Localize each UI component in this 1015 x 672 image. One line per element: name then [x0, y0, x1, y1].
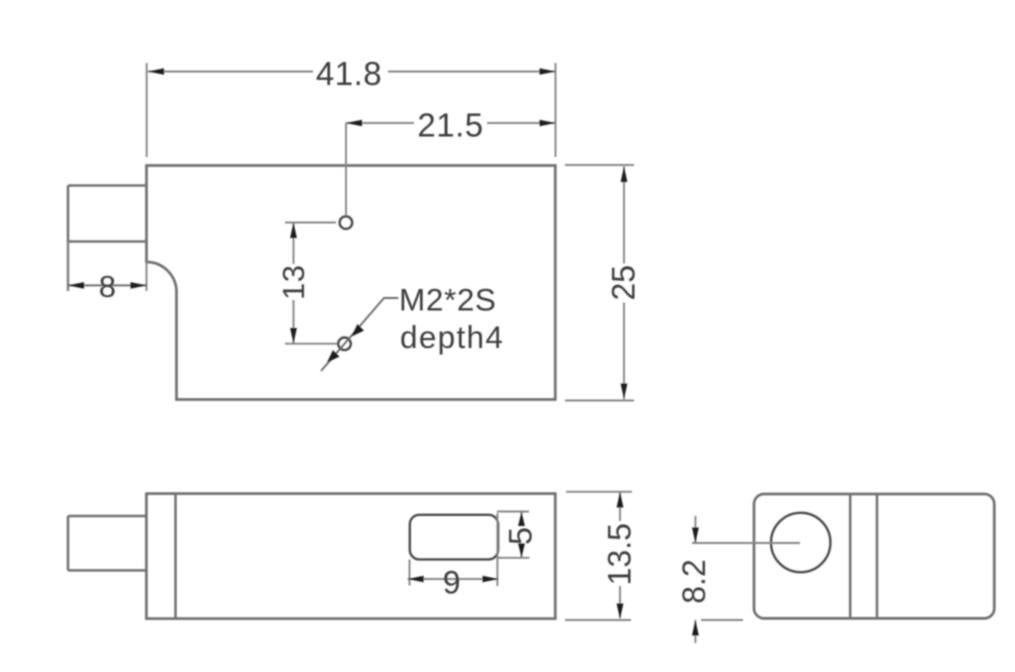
dimension 21.5 arrow left — [346, 120, 362, 127]
dimension 13.5 line — [619, 492, 621, 618]
dimension 13.5 ticks — [565, 492, 632, 620]
dimension 25 ticks — [565, 165, 634, 401]
dimension 25 line — [623, 167, 625, 400]
dimension 8 arrow left — [68, 282, 84, 289]
svg-text:41.8: 41.8 — [316, 55, 382, 92]
svg-text:8: 8 — [99, 269, 116, 304]
dimension 41.8 extension lines — [147, 63, 556, 157]
front view inner edge line — [174, 494, 177, 619]
svg-text:13.5: 13.5 — [602, 523, 638, 585]
dimension 8.2 leader to circle center — [692, 542, 800, 544]
hole H2 M2 tapped — [338, 338, 351, 351]
dimension 5 arrow up — [518, 512, 525, 526]
side view cable hole circle — [771, 513, 830, 572]
dimension 8.2 lower arrow tail — [694, 620, 696, 643]
front view USB opening — [410, 515, 498, 560]
dimension 25 arrow up — [621, 167, 628, 183]
svg-text:5: 5 — [503, 527, 539, 545]
dimension 13 line — [293, 223, 295, 344]
leader line M2 — [321, 298, 398, 371]
svg-text:13: 13 — [276, 265, 311, 300]
dimension 8.2 arrow down — [692, 528, 699, 544]
dimension 8.2 upper arrow tail — [694, 516, 696, 543]
svg-text:9: 9 — [443, 565, 461, 601]
dimension 41.8 arrow left — [148, 68, 164, 75]
dimension 13 arrow up — [290, 223, 297, 239]
dimension 41.8 line — [148, 71, 556, 73]
side view edge line 2 — [876, 494, 879, 618]
dimension 13 ticks — [285, 223, 338, 344]
svg-text:21.5: 21.5 — [417, 107, 483, 144]
dimension 8.2 bottom extension — [701, 619, 743, 621]
leader arrow upper — [352, 324, 365, 336]
dimension 9 arrow right — [483, 576, 499, 583]
dimension 8 arrow right — [131, 282, 147, 289]
svg-text:depth4: depth4 — [400, 319, 504, 355]
dimension 9 extension lines — [410, 513, 498, 586]
top view body outline — [147, 166, 556, 400]
dimension 9 line — [408, 578, 499, 580]
dimension 21.5 line — [346, 122, 556, 124]
dimension 13.5 arrow up — [617, 492, 624, 508]
dimension 8 extension lines — [68, 242, 147, 292]
svg-text:M2*2S: M2*2S — [399, 282, 497, 318]
front view connector protrusion — [68, 516, 146, 570]
hole H1 — [340, 216, 353, 229]
dimension 9 arrow left — [408, 576, 424, 583]
dimension 5 line — [521, 512, 523, 558]
front view body outline — [146, 494, 555, 619]
dimension 13 arrow down — [290, 328, 297, 344]
dimension 5 arrow down — [518, 544, 525, 558]
dimension 5 ticks — [497, 512, 530, 558]
side view body outline — [754, 494, 994, 618]
top view connector protrusion — [68, 186, 147, 292]
dimension 8.2 arrow up — [692, 620, 699, 636]
dimension 21.5 extension line — [345, 123, 347, 216]
dimension 8 line — [68, 284, 147, 286]
dimension 41.8 arrow right — [540, 68, 556, 75]
dimension 13.5 arrow down — [617, 604, 624, 620]
svg-text:25: 25 — [605, 265, 641, 301]
dimension 25 arrow down — [621, 384, 628, 400]
dimension 21.5 arrow right — [540, 120, 556, 127]
side view edge line 1 — [849, 494, 852, 618]
leader arrow lower — [327, 350, 340, 362]
svg-text:8.2: 8.2 — [676, 559, 712, 603]
